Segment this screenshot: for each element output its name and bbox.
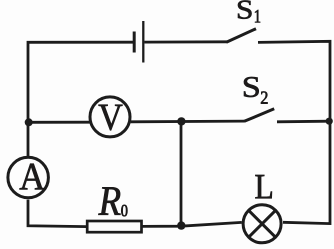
battery B1 short thick plate (negative) (133, 32, 136, 53)
node: junction dot left vertical / voltmeter row (25, 118, 33, 126)
lamp L label (255, 175, 271, 198)
ammeter A letter (20, 164, 45, 190)
wire: middle vertical between junctions (180, 121, 183, 226)
resistor R0 box (87, 221, 141, 232)
resistor R0 label (98, 187, 120, 215)
lamp L cross diagonal 2 (249, 210, 276, 237)
wire: top-left corner run (top wire to battery + left vertical down to ammeter) (28, 42, 133, 156)
wire: second row left stub to voltmeter (28, 121, 90, 124)
lamp L cross diagonal 1 (249, 210, 276, 237)
switch S1 blade (226, 29, 256, 43)
wire: top wire battery to switch S1 hinge (145, 40, 228, 43)
switch S2 label (244, 77, 259, 97)
switch S1 label (238, 0, 252, 18)
ammeter A circle (8, 157, 49, 198)
voltmeter V circle (90, 97, 130, 137)
wire: bottom wire from R0 to middle junction to lamp (143, 222, 242, 226)
battery B1 long thin plate (positive) (142, 21, 144, 63)
wire: top wire from S1 contact to right corner, right vertical, to lamp (258, 41, 330, 223)
node: junction dot right vertical / S2 row (326, 118, 333, 125)
node: junction dot middle vertical bottom (177, 221, 185, 229)
wire: second row S2 contact to right vertical (277, 120, 330, 123)
lamp L circle (243, 205, 281, 243)
voltmeter V letter (99, 105, 123, 131)
node: junction dot middle vertical top (177, 117, 185, 125)
switch S2 blade (244, 109, 274, 122)
wire: lower-left vertical below ammeter, bottom-left corner to resistor R0 (28, 200, 87, 227)
wire: second row voltmeter to middle junction to switch S2 hinge (131, 120, 245, 124)
